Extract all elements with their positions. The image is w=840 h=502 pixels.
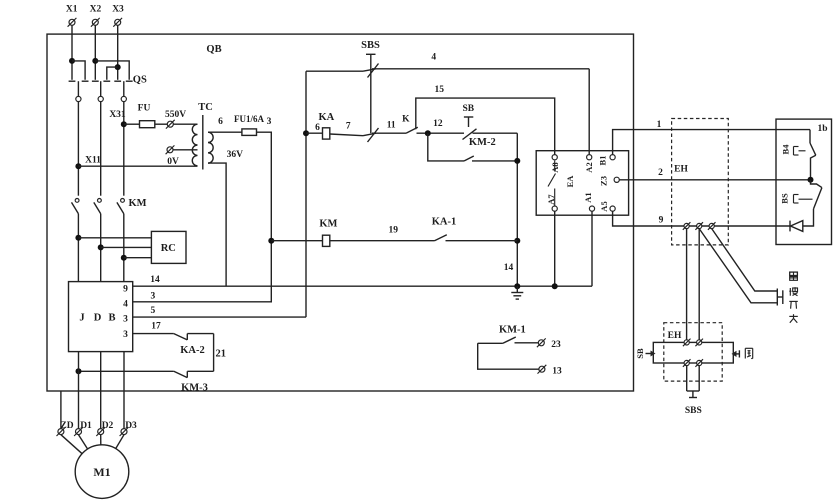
svg-text:J: J [79, 313, 84, 324]
wire common riser x517 [516, 133, 518, 286]
wire phase1 QS to KM [77, 102, 79, 196]
svg-text:M1: M1 [93, 465, 110, 479]
wire 21 loop [214, 334, 226, 372]
node 6 [303, 130, 309, 136]
hand switch [777, 289, 783, 306]
wire 0V tap [173, 149, 198, 151]
svg-text:B: B [108, 313, 115, 324]
connector pin a on wire 9 [683, 222, 691, 230]
svg-text:B1: B1 [597, 156, 607, 166]
switch B4 upper [780, 143, 815, 180]
plug SBS bottom [685, 391, 702, 416]
pin A2 [584, 155, 594, 173]
wire drop b [698, 229, 700, 340]
terminal ZD [57, 421, 74, 436]
wire phase3 KM to JDB [123, 214, 125, 282]
svg-text:A2: A2 [584, 162, 594, 172]
contact SBS-1 blade [368, 64, 379, 78]
wire node6 riser [305, 71, 307, 317]
svg-text:FU1/6A: FU1/6A [234, 114, 264, 124]
wire drop t4 [698, 366, 700, 391]
svg-text:11: 11 [387, 121, 396, 131]
wire X3 drop [117, 26, 119, 80]
wire D2 to motor [100, 435, 102, 445]
pin A7 [546, 194, 557, 212]
connector pin t4 [695, 359, 703, 367]
connector box EH lower dashed [664, 323, 722, 381]
svg-text:3: 3 [123, 315, 128, 325]
contact KM-2 branch [428, 133, 518, 161]
node ground [514, 283, 520, 289]
node L3 [115, 64, 121, 70]
svg-text:4: 4 [123, 300, 128, 310]
svg-text:KM-1: KM-1 [499, 325, 526, 336]
terminal 13 [538, 365, 563, 377]
node A7 common [552, 283, 558, 289]
svg-text:2: 2 [658, 168, 663, 178]
fuse FU1/6A [234, 114, 264, 135]
wire 19 [330, 226, 435, 241]
svg-text:K: K [402, 115, 410, 125]
svg-text:KA-1: KA-1 [432, 217, 457, 228]
wire D2 below JDB [100, 352, 102, 429]
terminal 0V [166, 145, 179, 167]
svg-text:6: 6 [218, 117, 223, 127]
diode VD [790, 209, 814, 232]
node X11 [75, 156, 101, 170]
svg-text:19: 19 [388, 226, 398, 236]
svg-text:A5: A5 [599, 201, 609, 211]
switch QS pole2 jumper [95, 61, 129, 80]
svg-text:X2: X2 [90, 5, 102, 15]
wire 15 [416, 85, 555, 155]
motor M1 [75, 445, 129, 499]
connector pin b on wire 9 [695, 222, 703, 230]
wire 11 [372, 121, 406, 134]
node RC2 [98, 244, 104, 250]
svg-text:SBS: SBS [685, 406, 702, 416]
wire 12 [417, 119, 465, 133]
svg-text:6: 6 [315, 123, 320, 133]
wire 1 [613, 120, 810, 154]
svg-text:SB: SB [462, 104, 474, 114]
switch QS pole3 jumper [107, 67, 118, 80]
contactor KM main contacts [72, 198, 147, 214]
svg-text:9: 9 [123, 285, 128, 295]
relay box EA [536, 151, 628, 216]
wire X11 to primary bottom [78, 165, 197, 167]
pin A8 [550, 155, 560, 173]
pin A1 [583, 192, 595, 211]
terminal X1 [66, 5, 78, 27]
svg-text:SB: SB [635, 348, 645, 359]
svg-text:13: 13 [552, 367, 562, 377]
node 12 [425, 130, 431, 136]
wire 2 [619, 168, 810, 180]
svg-text:KM: KM [319, 218, 337, 229]
node 1b common [808, 177, 814, 183]
wire 4 drop to A2 [588, 69, 590, 155]
svg-text:QS: QS [133, 75, 147, 86]
contact EA internal [548, 161, 556, 207]
svg-text:1b: 1b [817, 124, 827, 134]
wire drop t3 [686, 366, 688, 391]
terminal D3 [120, 421, 137, 436]
enclosure QB [47, 34, 634, 391]
svg-text:1: 1 [657, 120, 662, 130]
controller box JDB [69, 282, 133, 352]
node RC1 [75, 235, 81, 241]
svg-text:KA-2: KA-2 [180, 345, 205, 356]
wire drop a [686, 229, 688, 340]
svg-text:9: 9 [659, 216, 664, 226]
svg-text:KM-2: KM-2 [469, 137, 496, 148]
svg-text:550V: 550V [165, 110, 186, 120]
svg-text:14: 14 [504, 263, 514, 273]
wire 5 [133, 306, 306, 317]
node SB/KM-2 [514, 158, 520, 164]
svg-text:BS: BS [779, 193, 789, 204]
wire 14 common [133, 275, 592, 286]
contact KA-1 [432, 217, 518, 241]
connector pin t3 [683, 359, 691, 367]
svg-text:7: 7 [346, 122, 351, 132]
button SB [462, 104, 517, 140]
terminal D2 [96, 421, 113, 436]
coil KM [271, 218, 337, 246]
wire 6 secondary top [208, 117, 242, 132]
svg-text:4: 4 [431, 53, 436, 63]
svg-text:SBS: SBS [361, 40, 380, 51]
switch QS moving contact 3 [121, 81, 126, 101]
terminal 550V [165, 110, 186, 128]
contact KM-1 [478, 325, 539, 370]
svg-text:EH: EH [668, 331, 682, 341]
wire 1 inside drop [809, 130, 811, 143]
switch QS moving contact 2 [98, 81, 103, 101]
svg-text:3: 3 [151, 291, 156, 301]
svg-text:Z3: Z3 [598, 176, 608, 186]
harness EH dashed box [672, 119, 729, 245]
label ink control switch [789, 272, 798, 323]
svg-text:KM-3: KM-3 [181, 382, 208, 393]
plug right valve [732, 348, 753, 358]
svg-text:3: 3 [123, 330, 128, 340]
wire phase2 QS to KM [100, 102, 102, 196]
switch QS moving contact 1 [76, 81, 81, 101]
terminal 23 [537, 338, 561, 350]
node L1 [69, 58, 75, 64]
svg-text:EH: EH [674, 165, 688, 175]
connector body [653, 342, 733, 363]
wire X2 drop [94, 26, 96, 80]
ground [511, 286, 523, 299]
svg-text:36V: 36V [227, 150, 244, 160]
svg-text:KA: KA [319, 112, 335, 123]
svg-text:21: 21 [216, 349, 227, 360]
machine box 1b [776, 119, 832, 244]
coil KA [306, 112, 363, 139]
wire 9 [613, 211, 790, 226]
selector switch K blade [402, 115, 418, 134]
node X31 [109, 110, 126, 127]
suppressor RC [151, 231, 186, 263]
fuse FU [138, 104, 168, 128]
wire 4 [306, 53, 589, 72]
svg-text:FU: FU [138, 104, 151, 114]
node L2 [92, 58, 98, 64]
wire phase1 KM to JDB [77, 214, 79, 282]
wire diagonal b to hand switch [699, 229, 777, 303]
svg-text:TC: TC [198, 102, 213, 113]
wire 17 [133, 322, 174, 334]
switch BS lower [779, 180, 821, 209]
wire ZD from enclosure [60, 391, 62, 429]
svg-text:14: 14 [150, 275, 160, 285]
connector pin t2 [695, 339, 703, 347]
switch QS fixed contact bars [69, 80, 133, 82]
wire A1 drop [591, 211, 593, 286]
wire D1 below JDB [78, 352, 80, 429]
svg-text:A1: A1 [583, 192, 593, 202]
connector pin c on wire 9 [708, 222, 716, 230]
pin A5 [599, 201, 615, 211]
plug SB left [635, 348, 656, 359]
svg-text:D: D [94, 313, 102, 324]
wire D3 below JDB [123, 352, 125, 429]
contact KA-2 [174, 334, 214, 357]
svg-text:B4: B4 [780, 144, 790, 155]
connector pin t1 [683, 339, 691, 347]
wire phase2 KM to JDB [100, 214, 102, 282]
svg-text:12: 12 [433, 119, 443, 129]
node KA-1 out [514, 238, 520, 244]
wire node 3 [133, 117, 272, 302]
contact SBS-2 [363, 128, 379, 142]
node 3 to KM coil [268, 238, 274, 244]
svg-text:X1: X1 [66, 5, 78, 15]
wire secondary bottom to net 14 [208, 163, 226, 286]
transformer TC core [202, 115, 204, 170]
wire to RC a [78, 237, 151, 239]
switch QS pole1 jumper [72, 61, 85, 80]
wire D1 to motor [79, 435, 88, 449]
svg-text:EA: EA [565, 175, 575, 188]
pin B1 [597, 155, 615, 166]
wire 550V to primary [173, 123, 197, 125]
svg-text:15: 15 [434, 85, 444, 95]
wire phase3 QS to KM [123, 102, 125, 196]
transformer TC primary winding [192, 102, 212, 166]
svg-text:X11: X11 [85, 156, 101, 166]
wire D3 to motor [116, 435, 124, 449]
terminal D1 [74, 421, 92, 436]
svg-text:QB: QB [206, 44, 221, 55]
transformer TC secondary winding 36V [208, 132, 243, 163]
svg-text:5: 5 [151, 306, 156, 316]
svg-text:X31: X31 [109, 110, 126, 120]
pin Z3 [598, 176, 619, 186]
node KM-3 tap [76, 368, 82, 374]
svg-text:17: 17 [151, 322, 161, 332]
terminal X3 [112, 5, 124, 27]
node RC3 [121, 255, 127, 261]
terminal X2 [90, 5, 102, 27]
button SBS actuator [361, 40, 380, 133]
wire diagonal c to hand switch [712, 229, 778, 291]
svg-text:KM: KM [128, 198, 146, 209]
contact KM-3 [79, 371, 214, 393]
svg-text:3: 3 [267, 117, 272, 127]
svg-text:X3: X3 [112, 5, 124, 15]
wire to RC c [124, 257, 152, 259]
wire A7 drop [554, 211, 556, 286]
wire to RC b [101, 246, 152, 248]
wire ZD to motor [61, 435, 82, 454]
svg-text:23: 23 [551, 340, 561, 350]
svg-text:D1: D1 [80, 421, 92, 431]
wire X31 to fuse FU [124, 123, 140, 125]
svg-text:RC: RC [161, 243, 176, 254]
wire X1 drop [71, 26, 73, 80]
